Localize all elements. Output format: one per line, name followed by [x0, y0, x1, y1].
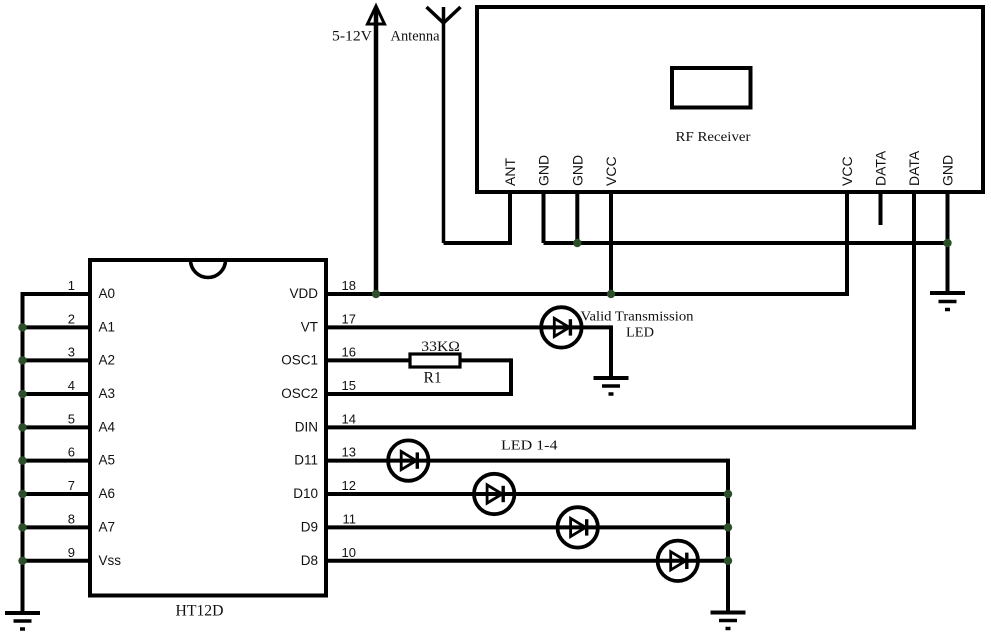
svg-text:A2: A2: [99, 352, 116, 367]
LED D4 on D9: [558, 507, 598, 547]
svg-text:A4: A4: [99, 419, 116, 434]
svg-text:DATA: DATA: [906, 150, 922, 186]
svg-text:9: 9: [68, 545, 75, 560]
wire LED bus right: [726, 459, 730, 613]
wire ANT down: [508, 192, 512, 243]
svg-text:ANT: ANT: [502, 158, 518, 186]
ground for VT LED: [594, 378, 629, 394]
svg-text:18: 18: [342, 278, 356, 293]
ground for LED bus: [711, 613, 746, 629]
LED D2 on D11: [388, 440, 428, 480]
wire OSC1 pin16 left: [326, 358, 409, 362]
wire GND2 down: [575, 192, 579, 243]
svg-text:GND: GND: [536, 155, 552, 186]
junction node pin2 bus: [18, 323, 26, 331]
svg-text:5-12V: 5-12V: [332, 29, 373, 45]
wire pin3 A2: [23, 358, 91, 362]
wire pin1 A0: [23, 292, 91, 296]
junction node GND right: [943, 239, 951, 247]
junction node GND2: [573, 239, 581, 247]
wire D11 pin13: [326, 459, 728, 463]
svg-text:LED 1-4: LED 1-4: [501, 439, 558, 454]
svg-text:R1: R1: [424, 370, 442, 387]
junction node VCC on VDD: [607, 290, 615, 298]
LED D1 valid transmission: [541, 307, 581, 347]
wire ANT to antenna: [444, 241, 513, 245]
svg-text:Antenna: Antenna: [391, 29, 441, 45]
svg-text:A6: A6: [99, 486, 116, 501]
svg-text:2: 2: [68, 311, 75, 326]
wire pin2 A1: [23, 325, 91, 329]
svg-text:OSC1: OSC1: [281, 352, 318, 367]
wire pin9 Vss: [23, 559, 91, 563]
svg-text:13: 13: [342, 445, 356, 460]
svg-text:12: 12: [342, 478, 356, 493]
svg-text:VT: VT: [301, 319, 318, 334]
svg-text:VCC: VCC: [839, 156, 855, 186]
junction node pin6 bus: [18, 456, 26, 464]
wire VT pin17: [326, 325, 611, 329]
svg-text:5: 5: [68, 411, 75, 426]
wire VCC right drop: [845, 192, 849, 296]
svg-text:D11: D11: [294, 453, 318, 468]
wire D8 pin10: [326, 559, 728, 563]
junction node pin7 bus: [18, 490, 26, 498]
svg-text:Vss: Vss: [99, 553, 122, 568]
svg-text:A0: A0: [99, 286, 116, 301]
wire OSC loop vertical: [509, 358, 513, 394]
wire GND net horizontal: [544, 241, 948, 245]
wire VCC left drop: [609, 192, 613, 294]
wire VT LED to ground: [609, 325, 613, 378]
svg-text:GND: GND: [569, 155, 585, 186]
svg-text:DIN: DIN: [295, 419, 318, 434]
power rail 5-12V: [374, 8, 379, 294]
svg-text:LED: LED: [626, 326, 654, 341]
svg-text:4: 4: [68, 378, 75, 393]
IC U1 HT12D body: [90, 260, 326, 596]
wire DATA1 stub: [879, 192, 883, 225]
wire DATA2 drop: [912, 192, 916, 429]
svg-text:7: 7: [68, 478, 75, 493]
svg-text:A7: A7: [99, 519, 116, 534]
ground for RF receiver GND: [930, 293, 965, 310]
wire pin6 A5: [23, 459, 91, 463]
svg-text:11: 11: [343, 511, 357, 526]
svg-text:3: 3: [68, 344, 75, 359]
svg-text:A1: A1: [99, 319, 116, 334]
svg-text:OSC2: OSC2: [281, 386, 318, 401]
svg-text:16: 16: [342, 344, 356, 359]
wire pin5 A4: [23, 425, 91, 429]
junction node D9 bus: [724, 523, 732, 531]
svg-text:17: 17: [342, 311, 356, 326]
wire pin4 A3: [23, 392, 91, 396]
svg-text:6: 6: [68, 445, 75, 460]
wire pin8 A7: [23, 525, 91, 529]
IC notch: [191, 260, 226, 278]
junction node pin9 bus: [18, 557, 26, 565]
RF receiver box U2: [477, 7, 983, 192]
svg-text:8: 8: [68, 511, 75, 526]
junction node D10 bus: [724, 490, 732, 498]
svg-text:D10: D10: [293, 486, 318, 501]
LED D5 on D8: [658, 541, 698, 581]
junction node pin3 bus: [18, 356, 26, 364]
junction node 5-12V on VDD: [372, 290, 380, 298]
svg-text:D8: D8: [301, 553, 318, 568]
antenna: [427, 7, 461, 243]
svg-text:33KΩ: 33KΩ: [421, 339, 460, 355]
svg-text:10: 10: [342, 545, 356, 560]
svg-text:A3: A3: [99, 386, 116, 401]
svg-text:VCC: VCC: [603, 156, 619, 186]
wire address bus left: [21, 292, 25, 613]
wire D9 pin11: [326, 525, 728, 529]
svg-text:GND: GND: [940, 155, 956, 186]
wire OSC1 resistor right: [461, 358, 511, 362]
junction node D8 bus: [724, 557, 732, 565]
resistor R1: [410, 354, 460, 367]
RF receiver inner rectangle: [672, 68, 751, 108]
ground for address bus: [5, 613, 40, 629]
wire OSC2 pin15: [326, 392, 513, 396]
svg-text:A5: A5: [99, 453, 116, 468]
junction node pin5 bus: [18, 423, 26, 431]
svg-text:DATA: DATA: [873, 150, 889, 186]
svg-text:HT12D: HT12D: [176, 603, 224, 620]
wire GND right down: [946, 192, 950, 292]
wire VDD pin18 net: [326, 292, 847, 296]
svg-text:D9: D9: [301, 519, 318, 534]
svg-text:RF Receiver: RF Receiver: [676, 130, 751, 145]
svg-text:15: 15: [342, 378, 356, 393]
svg-text:14: 14: [342, 411, 356, 426]
LED D3 on D10: [474, 474, 514, 514]
svg-text:VDD: VDD: [289, 286, 318, 301]
wire GND1 down: [542, 192, 546, 243]
wire D10 pin12: [326, 492, 728, 496]
junction node pin4 bus: [18, 390, 26, 398]
svg-text:1: 1: [68, 278, 75, 293]
wire pin7 A6: [23, 492, 91, 496]
wire DIN pin14: [326, 425, 914, 429]
junction node pin8 bus: [18, 523, 26, 531]
svg-text:Valid Transmission: Valid Transmission: [581, 310, 694, 325]
